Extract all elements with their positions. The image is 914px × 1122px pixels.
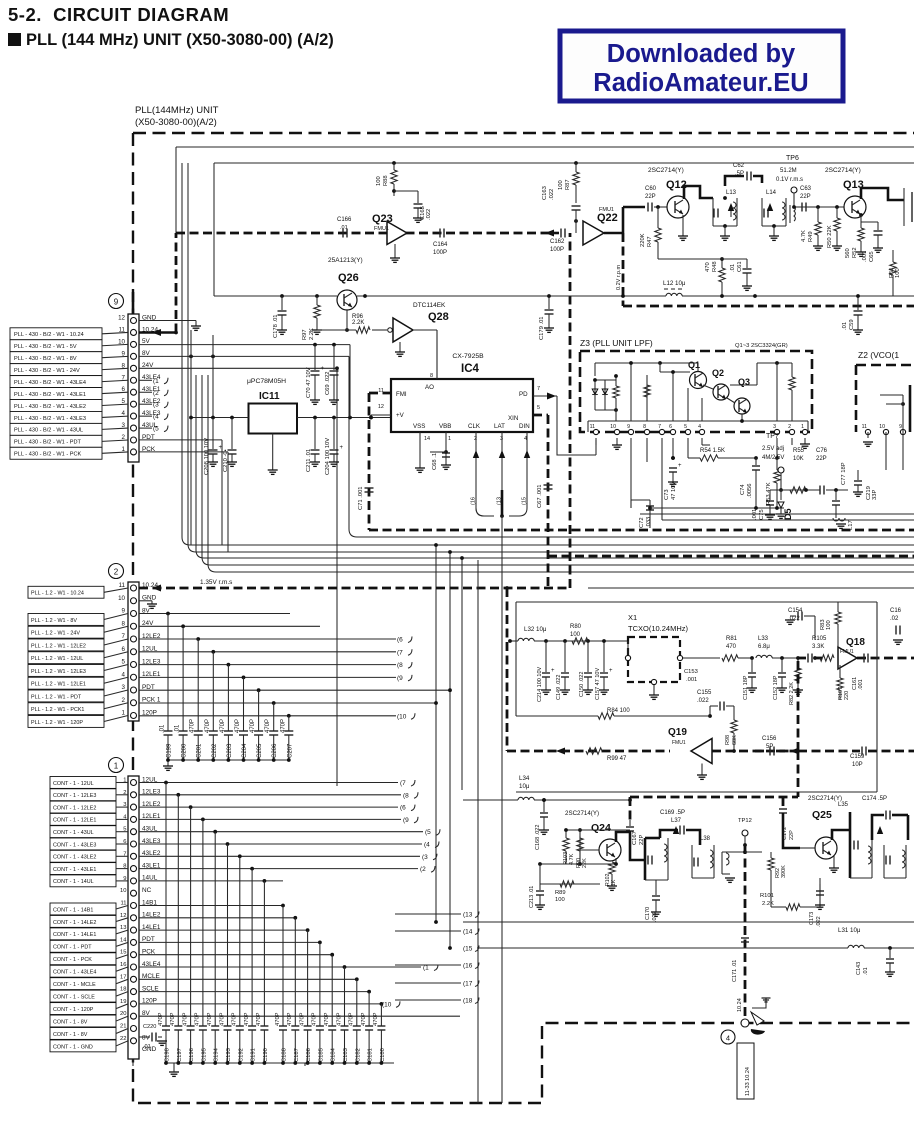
svg-text:FMU1: FMU1 bbox=[599, 207, 614, 213]
svg-text:C185: C185 bbox=[318, 1048, 324, 1062]
IC4 dashed bottom bbox=[369, 529, 914, 532]
svg-text:C71 .001: C71 .001 bbox=[358, 486, 364, 510]
svg-text:C213 .01: C213 .01 bbox=[529, 886, 535, 908]
connector 2 block bbox=[109, 564, 161, 722]
connector 1 block bbox=[109, 758, 161, 1060]
svg-text:C59: C59 bbox=[849, 319, 855, 330]
svg-text:C151 18P: C151 18P bbox=[743, 675, 749, 700]
svg-text:C162: C162 bbox=[550, 239, 565, 245]
svg-text:C191: C191 bbox=[251, 1048, 257, 1062]
connector 9 block bbox=[109, 294, 161, 463]
testpoint TP12 bbox=[738, 818, 752, 845]
svg-text:2.2K: 2.2K bbox=[309, 328, 315, 340]
svg-text:14: 14 bbox=[424, 436, 430, 442]
wire 5V top rail bbox=[313, 343, 350, 418]
svg-text:2SC2714(Y): 2SC2714(Y) bbox=[825, 167, 861, 174]
capacitor C168 bbox=[535, 800, 549, 850]
svg-text:+: + bbox=[609, 668, 613, 674]
svg-text:C143: C143 bbox=[856, 962, 862, 975]
resistor R99 bbox=[586, 748, 627, 762]
Z3 pin grounds right bbox=[800, 438, 810, 448]
svg-text:C198: C198 bbox=[165, 1048, 171, 1062]
capacitor C152 bbox=[773, 658, 787, 700]
svg-text:PLL - 1.2 - W1 - 24V: PLL - 1.2 - W1 - 24V bbox=[31, 631, 80, 637]
svg-text:CONT - 1 - 43UL: CONT - 1 - 43UL bbox=[53, 830, 94, 836]
svg-text:Q18: Q18 bbox=[846, 637, 865, 648]
svg-text:470P: 470P bbox=[170, 1012, 176, 1026]
connector 4 label box bbox=[737, 1043, 754, 1099]
svg-text:Downloaded by: Downloaded by bbox=[607, 40, 796, 68]
svg-text:(7: (7 bbox=[400, 780, 406, 787]
svg-text:9: 9 bbox=[627, 424, 630, 430]
capacitor C219 bbox=[853, 470, 878, 500]
capacitor C157 bbox=[595, 639, 613, 700]
svg-text:2SC2714(Y): 2SC2714(Y) bbox=[648, 167, 684, 174]
svg-text:C214 100 10V: C214 100 10V bbox=[537, 667, 543, 702]
svg-text:6: 6 bbox=[122, 646, 126, 653]
svg-text:C182: C182 bbox=[355, 1048, 361, 1062]
svg-text:L12 10μ: L12 10μ bbox=[663, 280, 686, 287]
transistor Q1 bbox=[658, 360, 706, 389]
capacitor C166 bbox=[337, 217, 352, 238]
capacitor C143 bbox=[856, 948, 895, 976]
connector 1 signal refs top bbox=[139, 780, 440, 873]
svg-text:(2: (2 bbox=[153, 390, 159, 397]
transistor Q26 bbox=[328, 257, 363, 310]
svg-text:560: 560 bbox=[845, 248, 851, 258]
capacitor C213 bbox=[529, 884, 545, 909]
wire Q26 row bbox=[214, 294, 666, 298]
unit name label bbox=[135, 105, 219, 128]
capacitor C162 bbox=[548, 229, 565, 254]
svg-text:PLL - 1.2 - W1 - 10.24: PLL - 1.2 - W1 - 10.24 bbox=[31, 591, 84, 597]
svg-text:470P: 470P bbox=[287, 1012, 293, 1026]
bus solid lines bbox=[516, 588, 914, 792]
svg-text:.0056: .0056 bbox=[747, 483, 753, 498]
svg-text:100: 100 bbox=[555, 897, 565, 903]
svg-text:6: 6 bbox=[669, 424, 672, 430]
svg-text:CONT - 1 - 14UL: CONT - 1 - 14UL bbox=[53, 879, 94, 885]
resistor R83 bbox=[820, 602, 841, 647]
svg-text:4: 4 bbox=[726, 1034, 730, 1043]
wire IC11 input bbox=[189, 416, 248, 420]
svg-text:(4: (4 bbox=[424, 842, 430, 849]
svg-text:C174 .5P: C174 .5P bbox=[862, 796, 887, 802]
Z3 bottom ext wires bbox=[631, 438, 792, 520]
resistor R52 bbox=[845, 213, 866, 258]
capacitor bank C198-C190 bbox=[158, 781, 269, 1063]
svg-text:10K: 10K bbox=[793, 456, 804, 462]
svg-text:470P: 470P bbox=[220, 719, 226, 733]
svg-text:C157 47 10V: C157 47 10V bbox=[595, 668, 601, 700]
svg-text:C168 .022: C168 .022 bbox=[535, 825, 541, 850]
svg-text:C166: C166 bbox=[337, 217, 352, 223]
wire X1 out bbox=[683, 657, 720, 659]
transistor Q12 bbox=[648, 167, 689, 218]
Z3 right section bbox=[730, 361, 795, 421]
svg-text:1: 1 bbox=[114, 762, 119, 771]
svg-text:470: 470 bbox=[726, 644, 737, 650]
svg-text:11-33 10.24: 11-33 10.24 bbox=[745, 1067, 751, 1096]
wire PCK pin1 bbox=[139, 452, 228, 552]
svg-text:PLL - 1.2 - W1 - PCK1: PLL - 1.2 - W1 - PCK1 bbox=[31, 707, 84, 713]
svg-text:25A1213(Y): 25A1213(Y) bbox=[328, 257, 363, 264]
svg-text:12: 12 bbox=[378, 404, 384, 410]
IC11 ground bbox=[268, 434, 278, 475]
rail mid vertical D bbox=[448, 550, 452, 950]
svg-text:C156: C156 bbox=[762, 736, 777, 742]
resistor R89 bbox=[540, 881, 600, 903]
rail mid vertical E bbox=[460, 556, 464, 790]
transistor Q13 bbox=[825, 167, 866, 218]
svg-text:DTC114EK: DTC114EK bbox=[413, 302, 446, 309]
connector 1 cable labels bbox=[50, 777, 128, 1052]
svg-text:CONT - 1 - 120P: CONT - 1 - 120P bbox=[53, 1007, 94, 1013]
svg-text:C67 .001: C67 .001 bbox=[537, 484, 543, 508]
FM line vertical to Q19 bbox=[506, 588, 509, 751]
svg-text:PLL - 430 - B/2 - W1 - 5V: PLL - 430 - B/2 - W1 - 5V bbox=[14, 344, 77, 350]
capacitor C75 bbox=[752, 490, 775, 520]
transistor Q2 bbox=[703, 368, 729, 400]
capacitor C63 bbox=[792, 186, 818, 212]
svg-text:(14: (14 bbox=[463, 929, 473, 936]
svg-text:(1: (1 bbox=[153, 378, 159, 385]
capacitor C167 bbox=[626, 820, 645, 845]
capacitor C210 bbox=[223, 418, 237, 473]
svg-text:2SC2714(Y): 2SC2714(Y) bbox=[565, 810, 599, 817]
Q22 to VCO dashed bbox=[623, 233, 914, 306]
capacitor C71 bbox=[358, 486, 374, 510]
svg-text:R101: R101 bbox=[760, 893, 774, 899]
svg-text:Z3 (PLL UNIT LPF): Z3 (PLL UNIT LPF) bbox=[580, 338, 653, 348]
Q13 collector path bbox=[861, 188, 912, 226]
svg-text:470P: 470P bbox=[235, 719, 241, 733]
svg-text:470P: 470P bbox=[299, 1012, 305, 1026]
svg-text:L13: L13 bbox=[726, 190, 737, 196]
svg-text:.022: .022 bbox=[697, 698, 709, 704]
svg-text:.01: .01 bbox=[730, 264, 736, 272]
svg-text:7: 7 bbox=[537, 386, 540, 392]
svg-text:C205: C205 bbox=[257, 743, 263, 758]
inductor L12 bbox=[621, 280, 914, 298]
svg-text:TP7: TP7 bbox=[766, 433, 779, 440]
svg-text:(1: (1 bbox=[423, 965, 429, 972]
svg-text:C196: C196 bbox=[189, 1048, 195, 1062]
capacitor C214 bbox=[537, 641, 555, 702]
capacitor C178 bbox=[273, 296, 287, 338]
rail B vertical bbox=[212, 335, 214, 418]
svg-text:390K: 390K bbox=[781, 865, 787, 878]
resistor R84 bbox=[516, 602, 710, 719]
rail 8V vertical bbox=[190, 330, 192, 545]
wire PDT pin2 bbox=[139, 440, 222, 545]
svg-text:.01: .01 bbox=[143, 1044, 151, 1050]
capacitor C170 bbox=[645, 880, 661, 922]
dashed TP12 down bbox=[743, 843, 747, 1023]
inductor L12 core bbox=[664, 288, 682, 290]
svg-text:(8: (8 bbox=[403, 792, 409, 799]
svg-text:100P: 100P bbox=[433, 250, 447, 256]
svg-text:C73: C73 bbox=[664, 489, 670, 500]
svg-text:11: 11 bbox=[862, 424, 867, 430]
svg-text:C154: C154 bbox=[788, 608, 803, 614]
svg-text:9: 9 bbox=[899, 424, 902, 430]
svg-text:(7: (7 bbox=[397, 649, 403, 656]
IC4 serial wires CLK LAT DIN bbox=[471, 432, 531, 516]
svg-text:10: 10 bbox=[118, 595, 125, 602]
svg-text:1: 1 bbox=[801, 424, 804, 430]
svg-text:(9: (9 bbox=[397, 675, 403, 682]
svg-text:C150 .022: C150 .022 bbox=[579, 672, 585, 697]
Q19 ground bbox=[697, 764, 707, 780]
svg-text:47 10V: 47 10V bbox=[671, 481, 677, 500]
svg-text:CLK: CLK bbox=[468, 423, 481, 430]
svg-text:PLL - 1.2 - W1 - 12UL: PLL - 1.2 - W1 - 12UL bbox=[31, 656, 83, 662]
svg-text:PLL - 1.2 - W1 - 12LE1: PLL - 1.2 - W1 - 12LE1 bbox=[31, 682, 86, 688]
Z3 top wires bbox=[595, 361, 702, 421]
svg-text:4: 4 bbox=[698, 424, 701, 430]
svg-text:PLL - 430 - B/2 - W1 - 43LE4: PLL - 430 - B/2 - W1 - 43LE4 bbox=[14, 380, 86, 386]
svg-text:C204 100 10V: C204 100 10V bbox=[325, 438, 331, 475]
svg-text:3.3K: 3.3K bbox=[812, 644, 824, 650]
svg-text:470P: 470P bbox=[265, 719, 271, 733]
svg-text:CONT - 1 - 14B1: CONT - 1 - 14B1 bbox=[53, 907, 93, 913]
wire L38 to Q25 bbox=[722, 850, 762, 854]
svg-text:3: 3 bbox=[122, 684, 126, 691]
svg-text:9: 9 bbox=[122, 608, 126, 615]
svg-text:C211 .01: C211 .01 bbox=[306, 449, 312, 472]
svg-text:L34: L34 bbox=[519, 775, 530, 782]
svg-text:L32 10μ: L32 10μ bbox=[524, 626, 547, 633]
svg-text:.01: .01 bbox=[160, 724, 166, 733]
Q28 ground bbox=[395, 342, 405, 356]
svg-text:C194: C194 bbox=[214, 1047, 220, 1062]
svg-text:C149 .022: C149 .022 bbox=[556, 675, 562, 700]
wire 10.24 pin11 thick bbox=[139, 233, 176, 336]
svg-text:R87: R87 bbox=[565, 179, 571, 190]
svg-text:470P: 470P bbox=[336, 1012, 342, 1026]
svg-text:C74: C74 bbox=[740, 484, 746, 495]
transistor Q25 bbox=[783, 795, 842, 859]
svg-text:1: 1 bbox=[122, 710, 126, 717]
connector 4 bbox=[721, 998, 771, 1044]
svg-text:C203: C203 bbox=[227, 743, 233, 758]
svg-text:(6: (6 bbox=[400, 805, 406, 812]
svg-text:Q28: Q28 bbox=[428, 311, 449, 323]
svg-text:+V: +V bbox=[396, 412, 405, 419]
svg-text:C65: C65 bbox=[869, 251, 875, 262]
svg-text:PLL - 1.2 - W1 - 12LE2: PLL - 1.2 - W1 - 12LE2 bbox=[31, 643, 86, 649]
Z3 resistor 1 bbox=[613, 374, 619, 421]
svg-text:TP6: TP6 bbox=[786, 155, 799, 162]
svg-text:C69 .022: C69 .022 bbox=[325, 371, 331, 395]
svg-text:2.2K: 2.2K bbox=[762, 901, 774, 907]
capacitor C211 bbox=[306, 418, 320, 473]
resistor R92 bbox=[768, 852, 787, 884]
svg-text:.022: .022 bbox=[426, 209, 432, 220]
svg-text:C178 .01: C178 .01 bbox=[273, 314, 279, 338]
svg-text:7: 7 bbox=[122, 633, 126, 640]
connector 9 signal refs bbox=[139, 378, 168, 433]
wire 24V pin8 bbox=[139, 366, 339, 370]
wire GND c2 bbox=[139, 601, 157, 609]
svg-text:R55: R55 bbox=[793, 448, 805, 454]
svg-text:15: 15 bbox=[120, 950, 126, 956]
IC4 VSS bbox=[415, 432, 425, 472]
svg-text:Q23: Q23 bbox=[372, 213, 393, 225]
rail sweep bundle bbox=[182, 163, 914, 572]
connector 1 signal rows bbox=[139, 881, 460, 1016]
svg-text:10μ: 10μ bbox=[519, 783, 530, 790]
connector refs 13-18 bbox=[463, 912, 479, 1005]
svg-text:51.2M: 51.2M bbox=[780, 168, 797, 174]
svg-text:(10: (10 bbox=[382, 1001, 392, 1008]
IC4 XIN dashed bbox=[533, 415, 548, 588]
conn9 top stub bbox=[132, 292, 135, 314]
svg-text:C199: C199 bbox=[167, 743, 173, 758]
svg-text:(3: (3 bbox=[153, 402, 159, 409]
resistor R102 bbox=[605, 858, 617, 890]
capacitor C16x bbox=[890, 608, 903, 644]
svg-text:C75: C75 bbox=[759, 509, 765, 520]
capacitor C60 bbox=[623, 186, 667, 212]
TCXO section box right bbox=[876, 602, 878, 751]
FM dashed line main bbox=[176, 230, 554, 237]
title text bbox=[8, 4, 229, 25]
svg-text:CONT - 1 - 8V: CONT - 1 - 8V bbox=[53, 1032, 88, 1038]
svg-text:1.35V r.m.s: 1.35V r.m.s bbox=[200, 579, 232, 586]
svg-text:11: 11 bbox=[119, 582, 126, 589]
svg-text:R88: R88 bbox=[383, 175, 389, 186]
cap bank ground rail bbox=[163, 758, 291, 770]
capacitor C65 bbox=[861, 222, 883, 262]
svg-text:(13: (13 bbox=[463, 912, 473, 919]
svg-text:8: 8 bbox=[430, 373, 433, 379]
wire L14 sec bbox=[798, 206, 844, 208]
svg-text:R54 1.5K: R54 1.5K bbox=[700, 448, 725, 454]
svg-text:C204: C204 bbox=[242, 743, 248, 758]
capacitor C179 bbox=[539, 294, 554, 340]
resistor R53 bbox=[766, 458, 780, 508]
svg-text:Q24: Q24 bbox=[591, 822, 611, 834]
IC11 box bbox=[247, 378, 297, 434]
Q22 output vertical bbox=[616, 207, 623, 290]
FMI dashed loop bbox=[369, 393, 391, 530]
svg-text:5: 5 bbox=[684, 424, 687, 430]
capacitor C72 bbox=[631, 500, 654, 528]
bus line y922 bbox=[463, 921, 914, 923]
svg-text:(10: (10 bbox=[397, 713, 407, 720]
svg-text:PLL - 430 - B/2 - W1 - PCK: PLL - 430 - B/2 - W1 - PCK bbox=[14, 452, 82, 458]
svg-text:7: 7 bbox=[658, 424, 661, 430]
Q12 collector path bbox=[684, 186, 713, 199]
capacitor C61 bbox=[658, 259, 752, 290]
svg-text:PLL - 430 - B/2 - W1 - 43LE3: PLL - 430 - B/2 - W1 - 43LE3 bbox=[14, 416, 86, 422]
svg-text:C206: C206 bbox=[272, 743, 278, 758]
svg-text:6.8μ: 6.8μ bbox=[758, 644, 770, 650]
capacitor C74 bbox=[740, 458, 760, 508]
svg-text:CONT - 1 - 43LE4: CONT - 1 - 43LE4 bbox=[53, 970, 96, 976]
capacitor C59 bbox=[842, 294, 863, 334]
svg-text:.01: .01 bbox=[340, 225, 348, 231]
svg-text:R52: R52 bbox=[852, 247, 858, 258]
svg-text:Q19: Q19 bbox=[668, 727, 687, 738]
capacitor bank C199-C207 bbox=[160, 612, 294, 760]
capacitor C220 bbox=[139, 1024, 167, 1050]
capacitor C154 bbox=[785, 608, 817, 660]
svg-text:(18: (18 bbox=[463, 998, 473, 1005]
FM dashed up to Q18 bbox=[790, 658, 799, 755]
svg-text:PD: PD bbox=[519, 391, 528, 398]
svg-text:FMU1: FMU1 bbox=[672, 740, 686, 746]
svg-text:C62: C62 bbox=[733, 163, 745, 169]
capacitor C161 bbox=[852, 654, 868, 691]
svg-text:Q1~3 2SC3324(GR): Q1~3 2SC3324(GR) bbox=[735, 343, 788, 349]
capacitor C159 bbox=[798, 747, 914, 769]
svg-text:8V: 8V bbox=[142, 1035, 151, 1042]
svg-text:2: 2 bbox=[788, 424, 791, 430]
svg-text:L33: L33 bbox=[758, 636, 769, 642]
testpoint TP6 bbox=[776, 155, 803, 207]
svg-text:PLL - 430 - B/2 - W1 - 10.24: PLL - 430 - B/2 - W1 - 10.24 bbox=[14, 332, 84, 338]
svg-text:470P: 470P bbox=[250, 719, 256, 733]
Q12 emitter ground bbox=[678, 215, 688, 240]
IC4 VBB bbox=[430, 432, 451, 470]
svg-text:AO: AO bbox=[425, 384, 434, 391]
svg-text:L31 10μ: L31 10μ bbox=[838, 927, 861, 934]
svg-text:C187: C187 bbox=[294, 1048, 300, 1062]
IC4 pin numbers bbox=[378, 373, 540, 442]
svg-text:470P: 470P bbox=[205, 719, 211, 733]
Q24 base bias rail bbox=[538, 798, 630, 884]
svg-text:DIN: DIN bbox=[519, 423, 530, 430]
capacitor C150 bbox=[579, 641, 593, 697]
svg-text:10P: 10P bbox=[852, 762, 863, 768]
resistor R107 bbox=[837, 665, 850, 700]
svg-text:.001: .001 bbox=[686, 677, 697, 683]
svg-text:470P: 470P bbox=[361, 1012, 367, 1026]
svg-text:R84 100: R84 100 bbox=[607, 708, 630, 714]
svg-text:0.1V r.m.s: 0.1V r.m.s bbox=[776, 177, 803, 183]
svg-text:C184: C184 bbox=[331, 1047, 337, 1062]
svg-text:μPC78M05H: μPC78M05H bbox=[247, 378, 286, 385]
svg-text:Q2: Q2 bbox=[712, 368, 724, 378]
svg-text:120P: 120P bbox=[142, 709, 157, 716]
svg-text:VBB: VBB bbox=[439, 423, 451, 430]
resistor R105 bbox=[812, 636, 834, 661]
capacitor C73 bbox=[664, 456, 682, 500]
svg-text:22P: 22P bbox=[789, 830, 795, 840]
svg-text:R50 22K: R50 22K bbox=[827, 225, 833, 248]
svg-text:.001: .001 bbox=[862, 251, 868, 262]
svg-text:470P: 470P bbox=[324, 1012, 330, 1026]
tank L37 bbox=[645, 818, 682, 880]
capacitor C70 bbox=[306, 345, 325, 404]
svg-text:C63: C63 bbox=[800, 186, 812, 192]
resistor R51 bbox=[889, 250, 901, 296]
FM line 1.35V dashed bbox=[139, 579, 570, 592]
svg-text:R48: R48 bbox=[712, 261, 718, 272]
svg-text:PLL - 430 - B/2 - W1 - 43LE1: PLL - 430 - B/2 - W1 - 43LE1 bbox=[14, 392, 86, 398]
inductor L33 bbox=[756, 636, 798, 660]
svg-text:(6: (6 bbox=[397, 637, 403, 644]
tank L38 bbox=[692, 836, 714, 878]
svg-text:C159: C159 bbox=[850, 754, 865, 760]
svg-text:R99 47: R99 47 bbox=[607, 756, 627, 762]
Q24 collector bbox=[616, 832, 645, 860]
svg-text:VSS: VSS bbox=[413, 423, 425, 430]
svg-text:11: 11 bbox=[120, 901, 126, 907]
